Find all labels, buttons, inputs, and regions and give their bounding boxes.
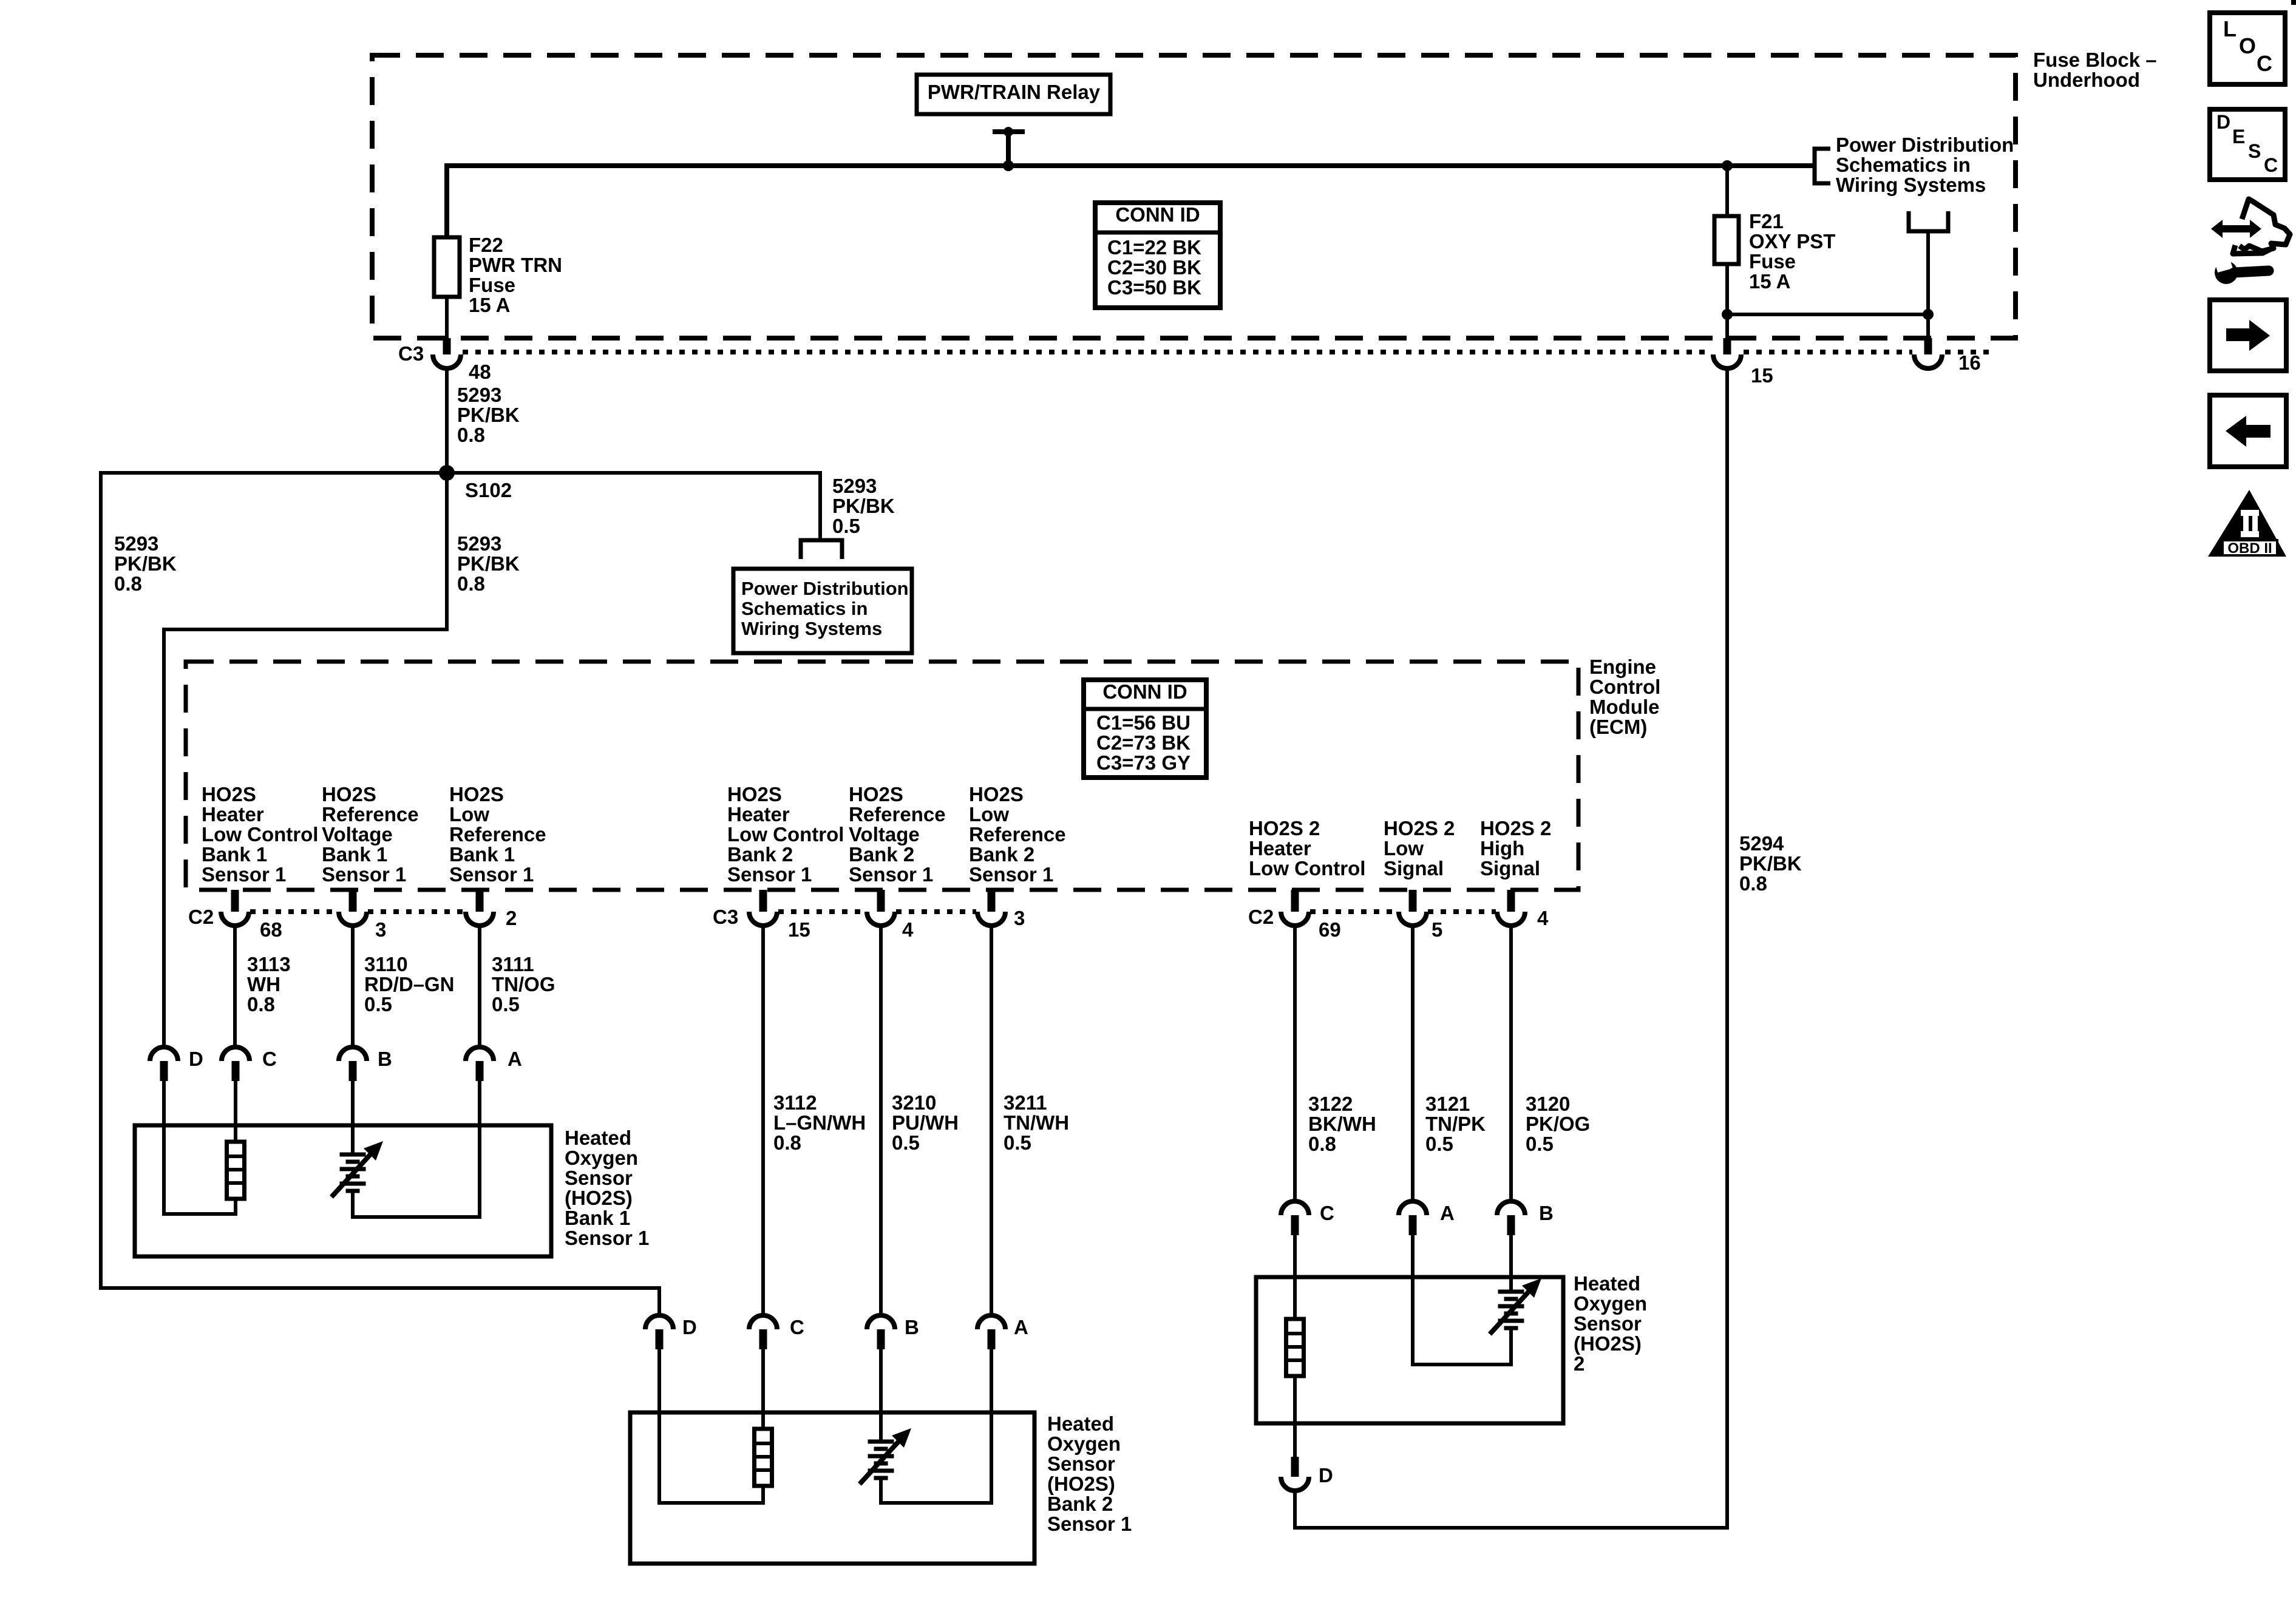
svg-text:Engine: Engine <box>1589 656 1656 678</box>
icon forward arrow box <box>2210 300 2286 371</box>
svg-text:3112: 3112 <box>773 1091 817 1114</box>
svg-text:C3: C3 <box>398 342 424 365</box>
svg-text:3113: 3113 <box>247 953 291 975</box>
svg-text:5293: 5293 <box>457 532 501 555</box>
wire 3121 TN/PK 0.5 <box>1411 926 1415 1201</box>
svg-text:L–GN/WH: L–GN/WH <box>773 1111 866 1134</box>
relay PWR/TRAIN Relay (label box) <box>917 75 1110 114</box>
svg-text:Low: Low <box>1384 837 1424 859</box>
power distribution reference box <box>733 569 912 653</box>
svg-text:Bank 1: Bank 1 <box>202 843 267 866</box>
wire C to heater (bank1) <box>234 1081 237 1142</box>
svg-text:Voltage: Voltage <box>322 823 393 846</box>
svg-text:Fuse: Fuse <box>469 274 515 296</box>
svg-text:PWR TRN: PWR TRN <box>469 254 562 276</box>
svg-text:0.5: 0.5 <box>832 515 860 537</box>
HO2S 2 sensor box <box>1256 1277 1563 1423</box>
svg-text:A: A <box>1014 1316 1028 1338</box>
svg-text:0.8: 0.8 <box>114 572 142 595</box>
svg-text:D: D <box>2216 111 2230 133</box>
wire 3111 TN/OG 0.5 <box>478 926 481 1047</box>
svg-text:Sensor 1: Sensor 1 <box>969 863 1053 886</box>
CONN ID table (ECM) <box>1084 680 1206 778</box>
wire heater to terminal D (HO2S2) <box>1293 1376 1297 1457</box>
connector D (HO2S bank1) <box>150 1047 178 1061</box>
svg-text:C1=22 BK: C1=22 BK <box>1107 236 1201 259</box>
svg-text:3120: 3120 <box>1526 1093 1570 1115</box>
svg-text:Heated: Heated <box>1047 1412 1114 1435</box>
CONN ID table (fuse block) <box>1095 203 1220 308</box>
HO2S bank2 sensor box <box>630 1412 1034 1564</box>
ECM pin 4 connector <box>877 890 885 912</box>
junction dot at F21 drop <box>1722 160 1733 171</box>
svg-text:Bank 2: Bank 2 <box>727 843 793 866</box>
junction dot F21/16 tie <box>1722 309 1733 320</box>
splice S102 <box>439 465 455 481</box>
svg-text:B: B <box>1539 1202 1554 1224</box>
svg-text:0.8: 0.8 <box>457 572 485 595</box>
bus wire from F22 to F21/bracket <box>447 166 1815 237</box>
heater return wire to D (bank2) <box>659 1349 763 1503</box>
wire 5294 PK/BK 0.8 (terminal 15 to HO2S2 D) <box>1295 371 1727 1528</box>
svg-text:3121: 3121 <box>1425 1093 1470 1115</box>
terminal D (HO2S2) <box>1291 1457 1299 1477</box>
svg-text:HO2S 2: HO2S 2 <box>1249 817 1320 839</box>
svg-text:E: E <box>2232 126 2245 147</box>
connector 16 (fuse block output) <box>1924 338 1932 354</box>
svg-text:F22: F22 <box>469 234 503 256</box>
svg-text:C3=50 BK: C3=50 BK <box>1107 276 1201 299</box>
svg-text:HO2S: HO2S <box>727 783 782 805</box>
svg-text:TN/WH: TN/WH <box>1004 1111 1069 1134</box>
svg-text:D: D <box>189 1048 203 1070</box>
svg-text:4: 4 <box>1537 907 1549 929</box>
fuse block - underhood (dashed outline) <box>372 55 2016 338</box>
connector D (HO2S bank2) <box>645 1315 673 1329</box>
connector B (HO2S bank2) <box>867 1315 895 1329</box>
heater element (bank2) <box>755 1429 772 1486</box>
fuse F22 PWR TRN 15A <box>434 237 460 297</box>
off-page bracket above terminal 16 wire <box>1907 211 1911 231</box>
svg-text:CONN ID: CONN ID <box>1115 203 1200 226</box>
connector A (HO2S 2) <box>1399 1201 1427 1215</box>
svg-text:Low: Low <box>449 803 489 825</box>
svg-text:O: O <box>2239 33 2256 58</box>
svg-text:C3: C3 <box>713 906 738 928</box>
svg-text:Sensor: Sensor <box>1574 1312 1642 1335</box>
svg-text:Schematics in: Schematics in <box>1836 154 1971 176</box>
connector 15 (fuse block output) <box>1724 338 1731 354</box>
svg-text:5: 5 <box>1432 918 1442 941</box>
svg-text:Oxygen: Oxygen <box>1574 1292 1647 1315</box>
svg-text:PU/WH: PU/WH <box>892 1111 959 1134</box>
ECM C2 connector dotted face (left) <box>250 909 338 914</box>
ECM C3 connector dotted face (middle) <box>778 909 866 914</box>
heater element (bank1) <box>227 1142 245 1199</box>
svg-text:PK/BK: PK/BK <box>1739 852 1802 875</box>
svg-text:3111: 3111 <box>492 953 534 975</box>
svg-text:C: C <box>2257 51 2272 76</box>
svg-text:(ECM): (ECM) <box>1589 716 1647 738</box>
wire 3122 BK/WH 0.8 <box>1293 926 1297 1201</box>
wire 3113 WH 0.8 <box>233 926 237 1047</box>
svg-text:Power Distribution: Power Distribution <box>741 578 909 599</box>
icon symptom-diagnosis (wrench) <box>2215 261 2238 284</box>
svg-text:Sensor 1: Sensor 1 <box>727 863 812 886</box>
svg-text:0.8: 0.8 <box>773 1131 801 1154</box>
svg-text:Sensor 1: Sensor 1 <box>1047 1513 1132 1535</box>
svg-text:2: 2 <box>506 907 517 929</box>
svg-text:Voltage: Voltage <box>849 823 920 846</box>
svg-text:0.5: 0.5 <box>492 993 520 1015</box>
connector C3 terminal 48 (fuse block output) <box>443 338 451 354</box>
svg-text:Control: Control <box>1589 676 1660 698</box>
svg-text:0.8: 0.8 <box>1308 1133 1336 1155</box>
svg-text:Heated: Heated <box>1574 1272 1640 1295</box>
svg-text:A: A <box>508 1048 522 1070</box>
ECM pin 3 connector <box>349 890 357 912</box>
svg-text:0.8: 0.8 <box>457 424 485 446</box>
connector B (HO2S bank1) <box>339 1047 367 1061</box>
wire C to heater (HO2S2) <box>1293 1235 1297 1319</box>
svg-text:Wiring Systems: Wiring Systems <box>1836 174 1986 196</box>
wire 5293 right branch to power distribution <box>447 473 820 538</box>
icon symptom-diagnosis (double arrow) <box>2211 220 2261 238</box>
svg-text:16: 16 <box>1958 351 1981 374</box>
svg-text:Heated: Heated <box>565 1127 631 1149</box>
ECM pin 2 connector <box>476 890 484 912</box>
sensor return wire to A (bank1) <box>353 1081 480 1217</box>
svg-text:Heater: Heater <box>1249 837 1311 859</box>
svg-text:C2=30 BK: C2=30 BK <box>1107 256 1201 279</box>
ECM C2 connector dotted face (right) <box>1310 909 1398 914</box>
connector C (HO2S 2) <box>1281 1201 1309 1215</box>
ECM pin 15 connector <box>759 890 767 912</box>
svg-text:High: High <box>1480 837 1524 859</box>
svg-text:15: 15 <box>788 918 810 941</box>
wire 5293 left branch to HO2S bank2 D <box>101 473 659 1315</box>
svg-text:Signal: Signal <box>1480 857 1540 880</box>
svg-text:2: 2 <box>1574 1352 1584 1375</box>
svg-text:Bank 1: Bank 1 <box>565 1207 630 1229</box>
wire bracket to terminal 16 <box>1926 231 1930 338</box>
svg-text:HO2S: HO2S <box>202 783 256 805</box>
svg-text:C2=73 BK: C2=73 BK <box>1096 731 1190 754</box>
svg-text:Bank 1: Bank 1 <box>322 843 387 866</box>
svg-text:HO2S 2: HO2S 2 <box>1480 817 1551 839</box>
relay contact symbol <box>993 129 1025 134</box>
svg-text:15 A: 15 A <box>1749 270 1790 293</box>
svg-text:Module: Module <box>1589 696 1659 718</box>
svg-text:CONN ID: CONN ID <box>1102 680 1187 703</box>
fuse F21 OXY PST 15A <box>1725 166 1729 216</box>
wire B to sensor element (HO2S2) <box>1509 1235 1513 1292</box>
svg-text:Fuse: Fuse <box>1749 250 1796 273</box>
wire 5293 middle branch to HO2S bank1 D <box>164 473 447 1047</box>
svg-text:Bank 2: Bank 2 <box>849 843 914 866</box>
svg-text:0.5: 0.5 <box>1526 1133 1554 1155</box>
svg-text:A: A <box>1440 1202 1455 1224</box>
svg-text:Schematics in: Schematics in <box>741 598 868 619</box>
wire 5293 PK/BK 0.8 from C3 to splice S102 <box>445 368 449 473</box>
wire 3110 RD/D-GN 0.5 <box>351 926 355 1047</box>
svg-text:Low: Low <box>969 803 1009 825</box>
svg-text:HO2S: HO2S <box>322 783 376 805</box>
ECM pin 68 connector <box>231 890 239 912</box>
svg-text:Sensor 1: Sensor 1 <box>849 863 933 886</box>
svg-text:69: 69 <box>1319 918 1341 941</box>
svg-text:Sensor 1: Sensor 1 <box>202 863 286 886</box>
svg-text:Bank 2: Bank 2 <box>1047 1493 1113 1515</box>
off-page bracket to Power Distribution (bus end) <box>1815 149 1830 183</box>
svg-text:OBD II: OBD II <box>2227 540 2272 557</box>
svg-text:S: S <box>2248 140 2261 162</box>
connector C (HO2S bank1) <box>222 1047 250 1061</box>
svg-text:Reference: Reference <box>322 803 419 825</box>
icon LOC box <box>2210 13 2285 84</box>
svg-text:B: B <box>378 1048 392 1070</box>
svg-text:Signal: Signal <box>1384 857 1444 880</box>
svg-text:0.5: 0.5 <box>1004 1131 1031 1154</box>
wire 3210 PU/WH 0.5 <box>879 926 883 1315</box>
svg-text:Low Control: Low Control <box>1249 857 1365 880</box>
svg-text:F21: F21 <box>1749 210 1784 232</box>
svg-text:HO2S: HO2S <box>969 783 1024 805</box>
svg-text:Oxygen: Oxygen <box>1047 1432 1121 1455</box>
svg-text:TN/PK: TN/PK <box>1425 1113 1486 1135</box>
svg-text:C2: C2 <box>188 906 214 928</box>
connector A (HO2S bank2) <box>977 1315 1005 1329</box>
svg-text:48: 48 <box>469 361 491 383</box>
svg-text:0.5: 0.5 <box>364 993 392 1015</box>
heater return wire to D (bank1) <box>164 1081 236 1214</box>
wire 3211 TN/WH 0.5 <box>990 926 993 1315</box>
svg-text:RD/D–GN: RD/D–GN <box>364 973 455 995</box>
svg-text:C2: C2 <box>1248 906 1274 928</box>
ECM pin 69 connector <box>1291 890 1299 912</box>
svg-text:BK/WH: BK/WH <box>1308 1113 1376 1135</box>
off-page bracket above power distribution box <box>801 540 842 559</box>
svg-text:PK/BK: PK/BK <box>457 404 520 426</box>
icon back arrow box <box>2210 395 2286 467</box>
icon symptom-diagnosis (outline) <box>2240 199 2290 251</box>
sensor element (bank1) <box>340 1153 366 1157</box>
svg-text:Fuse Block –: Fuse Block – <box>2033 49 2157 71</box>
sensor return wire to A (bank2) <box>881 1349 991 1503</box>
svg-text:Sensor 1: Sensor 1 <box>565 1227 649 1249</box>
svg-text:Sensor 1: Sensor 1 <box>322 863 406 886</box>
svg-text:Low Control: Low Control <box>202 823 318 846</box>
svg-text:Bank 2: Bank 2 <box>969 843 1034 866</box>
svg-text:PK/BK: PK/BK <box>114 552 177 575</box>
svg-text:0.5: 0.5 <box>892 1131 920 1154</box>
svg-text:3110: 3110 <box>364 953 408 975</box>
wire 3120 PK/OG 0.5 <box>1509 926 1513 1201</box>
svg-text:5294: 5294 <box>1739 832 1784 855</box>
svg-text:Power Distribution: Power Distribution <box>1836 134 2014 156</box>
HO2S bank1 sensor box <box>135 1125 551 1256</box>
ECM pin 5 connector <box>1409 890 1417 912</box>
svg-text:Sensor 1: Sensor 1 <box>449 863 534 886</box>
svg-text:5293: 5293 <box>457 384 501 406</box>
sensor element (bank2) <box>868 1440 894 1444</box>
svg-text:3210: 3210 <box>892 1091 936 1114</box>
tie wire between F21 branch and terminal 16 branch <box>1727 313 1928 316</box>
heater element (HO2S2) <box>1286 1319 1304 1376</box>
svg-text:C: C <box>2264 154 2278 176</box>
svg-text:PK/OG: PK/OG <box>1526 1113 1590 1135</box>
svg-text:Low Control: Low Control <box>727 823 844 846</box>
svg-text:0.5: 0.5 <box>1425 1133 1453 1155</box>
svg-text:0.8: 0.8 <box>1739 872 1767 895</box>
svg-text:C1=56 BU: C1=56 BU <box>1096 711 1190 734</box>
svg-text:3: 3 <box>375 918 386 941</box>
svg-text:(HO2S): (HO2S) <box>1047 1473 1115 1495</box>
svg-text:D: D <box>682 1316 697 1338</box>
svg-text:Oxygen: Oxygen <box>565 1147 638 1169</box>
svg-text:15 A: 15 A <box>469 294 510 316</box>
page corner mark <box>2291 0 2296 5</box>
wire F22 to connector C3 <box>445 297 449 338</box>
svg-text:3211: 3211 <box>1004 1091 1047 1114</box>
wire B to sensor element (bank1) <box>351 1081 355 1154</box>
svg-text:C: C <box>790 1316 804 1338</box>
svg-text:C: C <box>1320 1202 1334 1224</box>
svg-text:Reference: Reference <box>449 823 546 846</box>
fuse block connector face (dotted line) <box>463 350 1711 354</box>
svg-text:0.8: 0.8 <box>247 993 275 1015</box>
wire 3112 L-GN/WH 0.8 <box>761 926 765 1315</box>
svg-text:Reference: Reference <box>969 823 1066 846</box>
svg-text:PK/BK: PK/BK <box>832 495 895 517</box>
svg-text:B: B <box>905 1316 919 1338</box>
svg-text:15: 15 <box>1751 364 1773 387</box>
wire F21 to connector 15 <box>1725 264 1729 338</box>
svg-text:Heater: Heater <box>202 803 264 825</box>
connector A (HO2S bank1) <box>466 1047 494 1061</box>
sensor element (HO2S2) <box>1498 1290 1524 1294</box>
svg-text:68: 68 <box>260 918 282 941</box>
svg-text:Sensor: Sensor <box>1047 1453 1115 1475</box>
svg-text:PWR/TRAIN Relay: PWR/TRAIN Relay <box>928 81 1101 103</box>
svg-text:C3=73 GY: C3=73 GY <box>1096 751 1190 774</box>
svg-text:Underhood: Underhood <box>2033 69 2140 91</box>
svg-text:5293: 5293 <box>832 475 877 497</box>
svg-text:TN/OG: TN/OG <box>492 973 555 995</box>
svg-text:(HO2S): (HO2S) <box>565 1187 633 1209</box>
svg-text:Bank 1: Bank 1 <box>449 843 515 866</box>
connector C (HO2S bank2) <box>749 1315 777 1329</box>
svg-text:D: D <box>1319 1464 1333 1486</box>
engine control module (dashed outline) <box>186 662 1578 890</box>
svg-text:HO2S 2: HO2S 2 <box>1384 817 1455 839</box>
svg-text:L: L <box>2223 16 2237 41</box>
icon DESC box <box>2210 109 2285 180</box>
svg-text:(HO2S): (HO2S) <box>1574 1332 1642 1355</box>
svg-text:Sensor: Sensor <box>565 1167 633 1189</box>
svg-text:Reference: Reference <box>849 803 946 825</box>
icon OBD II triangle <box>2208 490 2286 557</box>
svg-text:S102: S102 <box>465 479 512 501</box>
svg-text:OXY PST: OXY PST <box>1749 230 1835 253</box>
svg-text:3122: 3122 <box>1308 1093 1353 1115</box>
svg-text:HO2S: HO2S <box>449 783 504 805</box>
ECM pin 4 connector <box>1507 890 1515 912</box>
connector B (HO2S 2) <box>1497 1201 1525 1215</box>
svg-text:PK/BK: PK/BK <box>457 552 520 575</box>
ECM pin 3 connector <box>988 890 996 912</box>
wire B to sensor element (bank2) <box>879 1349 883 1442</box>
svg-text:Wiring Systems: Wiring Systems <box>741 618 882 639</box>
svg-text:3: 3 <box>1014 907 1025 929</box>
svg-text:5293: 5293 <box>114 532 158 555</box>
svg-text:Heater: Heater <box>727 803 790 825</box>
svg-text:C: C <box>262 1048 277 1070</box>
svg-text:HO2S: HO2S <box>849 783 903 805</box>
svg-text:4: 4 <box>902 918 914 941</box>
sensor return wire to A (HO2S2) <box>1413 1235 1511 1364</box>
wire C to heater (bank2) <box>761 1349 765 1429</box>
svg-text:WH: WH <box>247 973 280 995</box>
